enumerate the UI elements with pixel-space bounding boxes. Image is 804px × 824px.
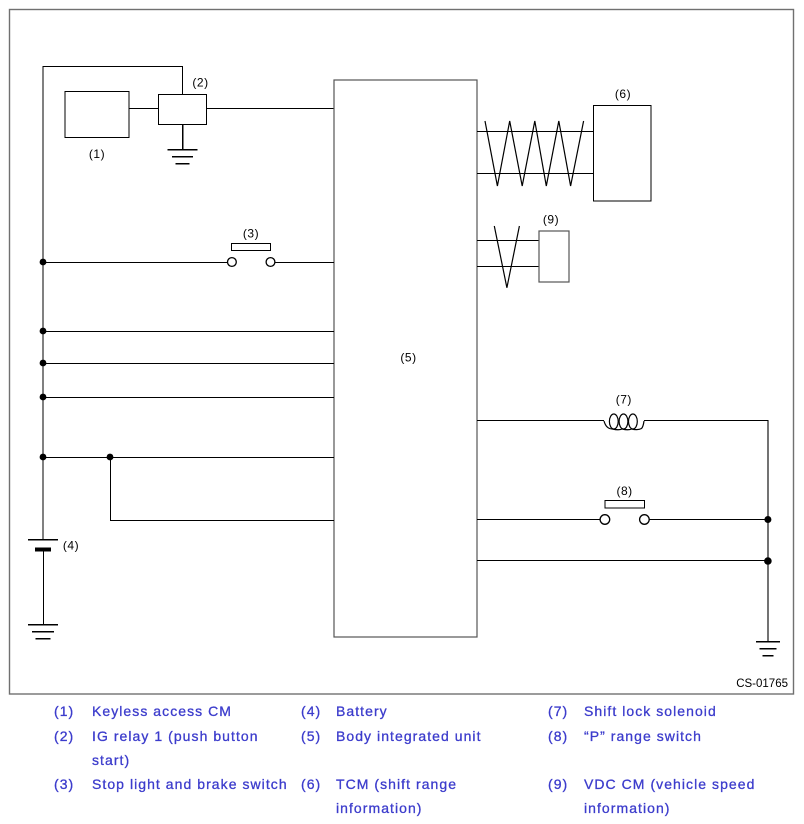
wire coil to right — [644, 420, 768, 422]
svg-text:(7): (7) — [616, 393, 632, 407]
wire — [649, 519, 768, 521]
node dot row 457 branch — [107, 454, 114, 461]
wire relay to unit5 — [207, 108, 335, 110]
box (1) Keyless access CM — [65, 92, 129, 138]
VDC wires pair — [477, 240, 539, 242]
ground battery — [28, 625, 58, 639]
ground right bus — [756, 642, 780, 656]
node dot right bus row 561 — [764, 557, 772, 565]
body integrated unit U5 box — [334, 80, 477, 637]
wire left bus vertical — [42, 66, 44, 539]
wire box1 to relay — [129, 108, 159, 110]
svg-text:(8): (8) — [617, 484, 633, 498]
switch (3) stop light and brake switch — [43, 227, 335, 267]
node dot row 457 left — [40, 454, 47, 461]
node dot right bus row 519 — [764, 516, 771, 523]
actuator bar — [232, 244, 271, 251]
node dot row 331 — [40, 328, 47, 335]
wire row 331 — [43, 331, 335, 333]
wire row 561 — [477, 560, 768, 562]
wire right bus vertical — [767, 421, 769, 642]
wire to coil — [477, 420, 604, 422]
contact circle right — [640, 515, 650, 525]
svg-text:(3): (3) — [243, 227, 259, 241]
twisted pair zigzag TCM — [485, 121, 584, 186]
svg-text:(1): (1) — [89, 147, 105, 161]
relay U2 box — [159, 95, 207, 125]
actuator bar — [605, 501, 645, 509]
contact circle left — [600, 515, 610, 525]
node dot row 363 — [40, 360, 47, 367]
contact circle right — [266, 258, 275, 267]
legend (7) — [548, 699, 568, 723]
wire branch vertical — [110, 457, 112, 521]
switch (8) P range switch — [477, 484, 768, 524]
shift lock solenoid coil L7 — [604, 414, 644, 430]
wire — [275, 262, 334, 264]
legend (2) — [54, 724, 74, 748]
legend (6) — [301, 772, 321, 796]
node dot row 262 — [40, 259, 47, 266]
svg-text:(6): (6) — [615, 87, 631, 101]
legend (4) — [301, 699, 321, 723]
svg-text:CS-01765: CS-01765 — [736, 678, 788, 690]
wire relay top vertical — [182, 66, 184, 94]
wire — [43, 262, 228, 264]
wire top horizontal — [43, 66, 183, 68]
legend (9) — [548, 772, 568, 796]
wire row 363 — [43, 363, 335, 365]
VDC CM U9 box — [539, 231, 569, 282]
legend (8) — [548, 724, 568, 748]
wire — [477, 519, 600, 521]
svg-text:(2): (2) — [192, 76, 208, 90]
wire row 457 — [43, 457, 335, 459]
svg-text:(9): (9) — [543, 213, 559, 227]
node dot row 397 — [40, 394, 47, 401]
TCM U6 box — [594, 106, 652, 202]
legend (5) — [301, 724, 321, 748]
legend (1) — [54, 699, 74, 723]
wire row 397 — [43, 397, 335, 399]
battery (4) — [28, 540, 58, 625]
TCM wires pair — [477, 131, 593, 133]
wire row 520 — [110, 520, 334, 522]
svg-text:(4): (4) — [63, 539, 79, 553]
svg-text:(5): (5) — [400, 351, 416, 365]
ground under relay — [168, 125, 198, 164]
legend (3) — [54, 772, 74, 796]
twisted pair zigzag VDC — [494, 226, 519, 288]
contact circle left — [228, 258, 237, 267]
